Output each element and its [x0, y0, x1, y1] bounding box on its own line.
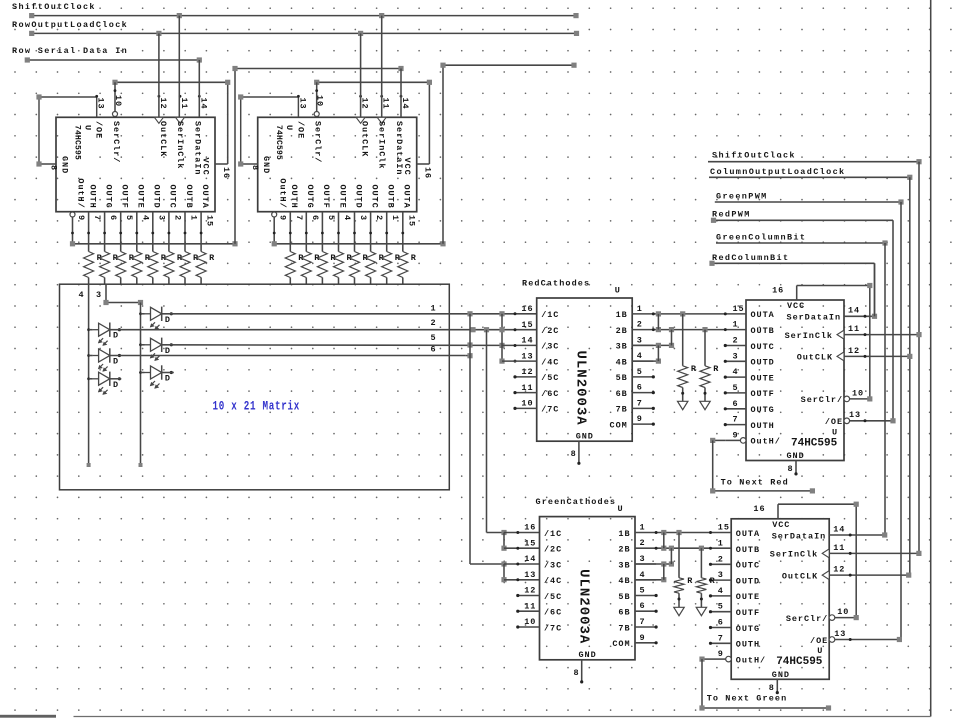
svg-text:/OE: /OE [94, 121, 104, 139]
svg-text:10: 10 [837, 607, 849, 617]
svg-text:OUTC: OUTC [369, 185, 379, 209]
svg-text:8: 8 [787, 464, 793, 474]
svg-text:/OE: /OE [295, 121, 305, 139]
svg-text:4: 4 [637, 351, 643, 361]
svg-text:9: 9 [637, 414, 643, 424]
svg-text:5B: 5B [616, 373, 628, 383]
svg-text:4: 4 [79, 290, 85, 300]
svg-text:13: 13 [849, 410, 861, 420]
svg-text:OUTC: OUTC [168, 185, 178, 209]
svg-text:4: 4 [140, 215, 150, 221]
svg-text:74HC595: 74HC595 [791, 437, 838, 449]
svg-text:To Next Red: To Next Red [721, 478, 789, 488]
svg-text:5: 5 [637, 367, 643, 377]
svg-text:OUTF: OUTF [321, 185, 331, 209]
svg-text:OUTG: OUTG [751, 405, 775, 415]
svg-text:OUTB: OUTB [184, 185, 194, 209]
svg-text:R: R [411, 253, 417, 263]
svg-text:COM: COM [610, 420, 628, 430]
svg-text:14: 14 [848, 306, 860, 316]
svg-text:3: 3 [96, 290, 102, 300]
svg-text:8: 8 [769, 683, 775, 693]
svg-text:8: 8 [573, 668, 579, 678]
svg-text:OUTB: OUTB [736, 545, 760, 555]
svg-text:D: D [113, 380, 119, 390]
svg-text:13: 13 [524, 570, 536, 580]
svg-text:3: 3 [156, 215, 166, 221]
svg-text:9: 9 [640, 633, 646, 643]
svg-text:SerInClk: SerInClk [377, 121, 387, 169]
svg-text:SerDataIn: SerDataIn [772, 531, 826, 541]
svg-text:U: U [83, 125, 93, 131]
svg-text:GreenColumnBit: GreenColumnBit [716, 233, 806, 243]
svg-text:2B: 2B [618, 545, 630, 555]
svg-text:OUTH: OUTH [87, 185, 97, 209]
svg-text:/6C: /6C [544, 608, 562, 618]
svg-text:2: 2 [172, 215, 182, 221]
svg-text:5: 5 [430, 333, 436, 343]
svg-text:U: U [618, 504, 624, 514]
svg-text:R: R [209, 253, 215, 263]
svg-text:D: D [165, 346, 171, 356]
svg-text:/6C: /6C [541, 389, 559, 399]
svg-text:16: 16 [221, 167, 231, 179]
svg-text:GND: GND [579, 650, 597, 660]
svg-text:74HC595: 74HC595 [73, 125, 82, 160]
svg-text:SerInClk: SerInClk [175, 121, 185, 169]
svg-text:ULN2003A: ULN2003A [576, 569, 592, 644]
svg-text:15: 15 [524, 539, 536, 549]
svg-text:SerInClk: SerInClk [785, 331, 833, 341]
svg-text:OUTA: OUTA [736, 529, 760, 539]
svg-text:6: 6 [733, 399, 739, 409]
svg-text:3B: 3B [616, 342, 628, 352]
svg-text:1: 1 [637, 304, 643, 314]
svg-text:OUTE: OUTE [136, 185, 146, 209]
svg-text:U: U [615, 286, 621, 296]
svg-text:15: 15 [205, 215, 215, 227]
svg-text:3: 3 [358, 215, 368, 221]
svg-text:OUTG: OUTG [736, 624, 760, 634]
svg-text:6: 6 [637, 383, 643, 393]
svg-text:GreenPWM: GreenPWM [716, 192, 768, 202]
svg-text:RedCathodes: RedCathodes [522, 279, 590, 289]
svg-text:OUTD: OUTD [751, 358, 775, 368]
svg-text:7: 7 [640, 617, 646, 627]
svg-text:SerClr/: SerClr/ [111, 121, 121, 163]
svg-text:OutH/: OutH/ [277, 178, 287, 208]
svg-text:RedColumnBit: RedColumnBit [712, 253, 789, 263]
svg-text:OutCLK: OutCLK [360, 121, 370, 157]
svg-text:9: 9 [278, 215, 288, 221]
svg-text:8: 8 [250, 165, 260, 171]
svg-text:SerDataIn: SerDataIn [787, 313, 841, 323]
svg-text:12: 12 [521, 367, 533, 377]
svg-text:5: 5 [640, 586, 646, 596]
svg-text:15: 15 [733, 304, 745, 314]
svg-text:3: 3 [640, 554, 646, 564]
svg-text:3: 3 [733, 351, 739, 361]
svg-text:2: 2 [374, 215, 384, 221]
svg-text:R: R [713, 364, 719, 374]
svg-text:/2C: /2C [541, 326, 559, 336]
svg-text:5: 5 [326, 215, 336, 221]
svg-text:13: 13 [834, 629, 846, 639]
svg-text:/4C: /4C [544, 576, 562, 586]
svg-text:/1C: /1C [544, 529, 562, 539]
svg-text:/5C: /5C [541, 373, 559, 383]
svg-text:6: 6 [718, 618, 724, 628]
svg-text:OUTH: OUTH [736, 640, 760, 650]
svg-text:8: 8 [571, 449, 577, 459]
svg-text:ShiftOutClock: ShiftOutClock [12, 2, 96, 12]
svg-text:74HC595: 74HC595 [274, 125, 283, 160]
svg-text:16: 16 [423, 167, 433, 179]
svg-text:VCC: VCC [772, 520, 790, 530]
svg-text:15: 15 [521, 320, 533, 330]
svg-text:9: 9 [76, 215, 86, 221]
svg-text:OUTG: OUTG [305, 185, 315, 209]
svg-text:/OE: /OE [810, 636, 828, 646]
svg-text:1: 1 [640, 523, 646, 533]
svg-text:5: 5 [124, 215, 134, 221]
svg-text:10: 10 [524, 617, 536, 627]
svg-text:R: R [710, 576, 716, 586]
svg-text:D: D [165, 374, 171, 384]
svg-text:16: 16 [521, 304, 533, 314]
svg-text:OutCLK: OutCLK [797, 353, 833, 363]
svg-text:2: 2 [637, 320, 643, 330]
svg-text:11: 11 [833, 543, 845, 553]
svg-text:SerClr/: SerClr/ [313, 121, 323, 163]
svg-text:16: 16 [772, 286, 784, 296]
svg-text:7: 7 [718, 633, 724, 643]
svg-text:9: 9 [733, 430, 739, 440]
svg-text:2: 2 [430, 318, 436, 328]
svg-text:10: 10 [315, 95, 325, 107]
svg-text:6: 6 [108, 215, 118, 221]
svg-text:6B: 6B [616, 389, 628, 399]
svg-text:4B: 4B [618, 576, 630, 586]
svg-text:4: 4 [342, 215, 352, 221]
svg-text:OUTC: OUTC [736, 561, 760, 571]
svg-text:12: 12 [848, 346, 860, 356]
svg-text:10 x 21 Matrix: 10 x 21 Matrix [213, 400, 300, 414]
svg-text:1: 1 [390, 215, 400, 221]
svg-text:OUTB: OUTB [751, 326, 775, 336]
svg-text:OUTH: OUTH [751, 421, 775, 431]
svg-text:/5C: /5C [544, 592, 562, 602]
svg-text:OUTH: OUTH [289, 185, 299, 209]
svg-text:/3C: /3C [544, 560, 562, 570]
svg-text:1: 1 [718, 539, 724, 549]
svg-text:4: 4 [640, 570, 646, 580]
svg-text:3B: 3B [618, 560, 630, 570]
svg-text:R: R [691, 364, 697, 374]
svg-text:/7C: /7C [541, 405, 559, 415]
svg-text:4B: 4B [616, 357, 628, 367]
svg-text:VCC: VCC [201, 158, 211, 176]
svg-text:ColumnOutputLoadClock: ColumnOutputLoadClock [710, 167, 845, 177]
svg-text:OutCLK: OutCLK [782, 571, 818, 581]
svg-text:R: R [687, 576, 693, 586]
svg-text:OUTE: OUTE [751, 373, 775, 383]
svg-text:ULN2003A: ULN2003A [573, 351, 589, 426]
svg-text:7: 7 [294, 215, 304, 221]
svg-text:74HC595: 74HC595 [776, 656, 823, 668]
svg-text:5: 5 [718, 602, 724, 612]
svg-text:13: 13 [96, 98, 106, 110]
svg-text:/2C: /2C [544, 545, 562, 555]
svg-text:12: 12 [524, 586, 536, 596]
svg-text:14: 14 [524, 554, 536, 564]
svg-text:OUTG: OUTG [103, 185, 113, 209]
svg-text:4: 4 [718, 586, 724, 596]
svg-text:7: 7 [92, 215, 102, 221]
svg-text:GND: GND [60, 156, 70, 174]
svg-text:11: 11 [524, 602, 536, 612]
svg-text:/7C: /7C [544, 623, 562, 633]
svg-text:6: 6 [640, 601, 646, 611]
svg-text:7B: 7B [616, 405, 628, 415]
svg-text:16: 16 [524, 523, 536, 533]
svg-text:D: D [113, 357, 119, 367]
svg-text:11: 11 [179, 98, 189, 110]
svg-text:1B: 1B [616, 310, 628, 320]
svg-text:OUTD: OUTD [152, 185, 162, 209]
svg-text:14: 14 [521, 336, 533, 346]
svg-text:8: 8 [49, 165, 59, 171]
svg-text:6: 6 [310, 215, 320, 221]
svg-text:11: 11 [521, 383, 533, 393]
svg-text:7B: 7B [618, 623, 630, 633]
svg-text:5B: 5B [618, 592, 630, 602]
svg-text:2B: 2B [616, 326, 628, 336]
svg-text:D: D [165, 315, 171, 325]
svg-text:13: 13 [297, 98, 307, 110]
svg-text:3: 3 [718, 570, 724, 580]
svg-text:GND: GND [576, 432, 594, 442]
svg-text:15: 15 [718, 523, 730, 533]
svg-text:1: 1 [430, 304, 436, 314]
svg-text:OutH/: OutH/ [736, 655, 766, 665]
svg-text:GND: GND [261, 156, 271, 174]
svg-text:SerInClk: SerInClk [770, 550, 818, 560]
svg-text:15: 15 [406, 215, 416, 227]
svg-text:14: 14 [833, 524, 845, 534]
svg-text:OUTD: OUTD [736, 576, 760, 586]
svg-text:To Next Green: To Next Green [707, 694, 788, 704]
svg-text:12: 12 [833, 565, 845, 575]
svg-text:2: 2 [733, 336, 739, 346]
svg-text:GND: GND [787, 451, 805, 461]
svg-text:10: 10 [113, 95, 123, 107]
svg-text:OUTE: OUTE [736, 592, 760, 602]
svg-text:VCC: VCC [787, 301, 805, 311]
svg-text:11: 11 [848, 324, 860, 334]
svg-text:OutH/: OutH/ [751, 437, 781, 447]
svg-text:U: U [817, 646, 823, 656]
svg-text:7: 7 [733, 415, 739, 425]
svg-text:2: 2 [718, 554, 724, 564]
svg-text:GND: GND [772, 670, 790, 680]
svg-text:OUTA: OUTA [402, 185, 412, 209]
svg-text:VCC: VCC [402, 158, 412, 176]
svg-text:1: 1 [733, 320, 739, 330]
svg-text:/OE: /OE [825, 417, 843, 427]
svg-text:OUTC: OUTC [751, 342, 775, 352]
svg-text:OUTE: OUTE [337, 185, 347, 209]
svg-text:1B: 1B [618, 529, 630, 539]
svg-text:GreenCathodes: GreenCathodes [536, 497, 617, 507]
svg-text:OutCLK: OutCLK [158, 121, 168, 157]
svg-text:5: 5 [733, 383, 739, 393]
svg-text:/1C: /1C [541, 310, 559, 320]
svg-text:OUTB: OUTB [386, 185, 396, 209]
svg-text:SerClr/: SerClr/ [801, 395, 843, 405]
svg-text:OUTF: OUTF [736, 608, 760, 618]
svg-text:Row Serial Data In: Row Serial Data In [12, 46, 128, 56]
svg-text:OUTD: OUTD [353, 185, 363, 209]
svg-text:OUTF: OUTF [751, 389, 775, 399]
svg-text:/4C: /4C [541, 357, 559, 367]
svg-text:13: 13 [521, 351, 533, 361]
svg-text:D: D [113, 331, 119, 341]
svg-text:OUTF: OUTF [120, 185, 130, 209]
svg-text:6B: 6B [618, 608, 630, 618]
svg-text:7: 7 [637, 398, 643, 408]
svg-text:COM: COM [612, 639, 630, 649]
svg-text:2: 2 [640, 538, 646, 548]
svg-text:RedPWM: RedPWM [712, 210, 751, 220]
svg-text:10: 10 [521, 399, 533, 409]
svg-text:U: U [284, 125, 294, 131]
svg-text:OutH/: OutH/ [76, 178, 86, 208]
svg-text:9: 9 [718, 649, 724, 659]
svg-text:3: 3 [637, 335, 643, 345]
svg-text:10: 10 [852, 388, 864, 398]
svg-text:SerClr/: SerClr/ [786, 614, 828, 624]
svg-text:ShiftOutClock: ShiftOutClock [712, 151, 796, 161]
svg-text:1: 1 [189, 215, 199, 221]
svg-text:U: U [832, 427, 838, 437]
svg-text:4: 4 [733, 367, 739, 377]
svg-text:RowOutputLoadClock: RowOutputLoadClock [12, 20, 128, 30]
svg-text:OUTA: OUTA [751, 310, 775, 320]
svg-text:/3C: /3C [541, 342, 559, 352]
svg-text:16: 16 [753, 504, 765, 514]
svg-text:OUTA: OUTA [200, 185, 210, 209]
